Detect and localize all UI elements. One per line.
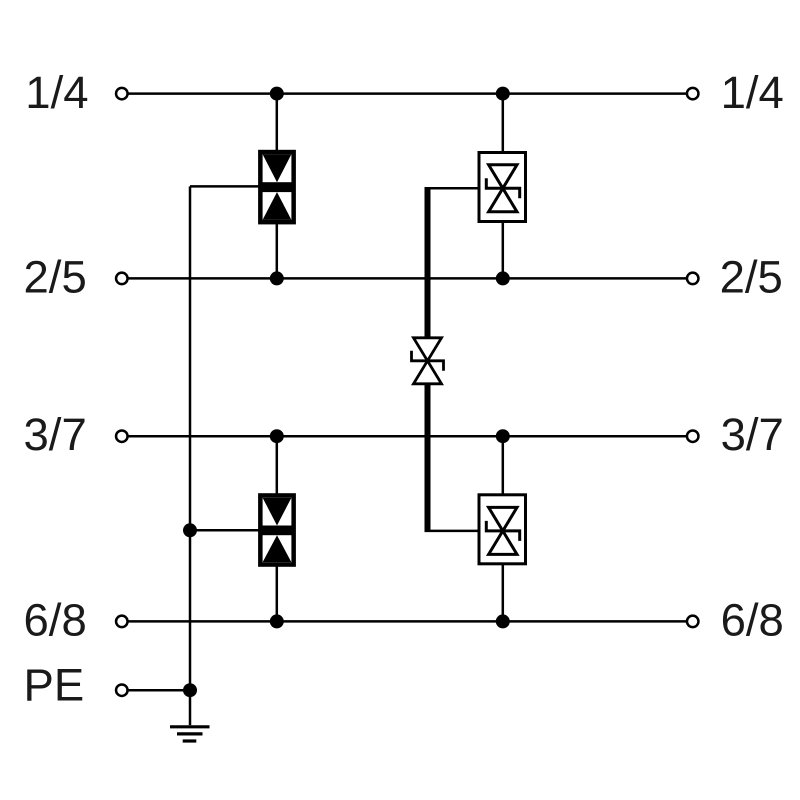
svg-text:3/7: 3/7 [721,409,784,460]
junction node: 6/8 x V2 [270,614,284,628]
svg-text:PE: PE [24,659,85,710]
boxed bidirectional suppressor F2 (bottom right) [479,495,526,564]
svg-text:1/4: 1/4 [25,67,88,118]
wire: F1 bottom to 2/5 [502,220,505,278]
wire: V2 bottom to 6/8 [276,564,279,621]
wire: 3/7 to V2 top [276,436,279,496]
ground [170,690,210,741]
terminal 3/7 left [116,430,128,442]
wire: line 6/8 [128,620,686,623]
wire: tee thick link to F1 [425,187,481,190]
junction node: 1/4 x V1 [270,87,284,101]
wire: V1 bottom to 2/5 [276,222,279,278]
wire: tee thick link to F2 [425,530,481,533]
junction node: 2/5 x V1 [270,271,284,285]
boxed bidirectional suppressor F1 (top right) [479,153,526,222]
wire: thick center link upper [425,187,431,338]
wire: line 1/4 [128,92,686,95]
terminal 3/7 right [687,430,699,442]
wire: tee to V1 mid [190,185,260,188]
wire: F2 bottom to 6/8 [502,562,505,621]
wire: PE bus vertical [189,186,192,690]
svg-text:6/8: 6/8 [24,595,87,646]
suppressor diode V2 (back-to-back, bottom left) [258,493,296,567]
junction node: 2/5 x F1 [496,271,510,285]
terminal 2/5 right [687,273,699,285]
junction node: PE terminal [183,683,197,697]
junction node: 3/7 x V2 [270,429,284,443]
wire: 3/7 to F2 top [502,436,505,497]
svg-text:2/5: 2/5 [720,251,783,302]
terminal 1/4 left [116,88,128,100]
wire: line 3/7 [128,435,686,438]
junction node: 3/7 x F2 [496,429,510,443]
terminal 2/5 left [116,273,128,285]
wire: PE lead [128,689,190,692]
terminal 6/8 left [116,616,128,628]
terminal PE left [116,684,128,696]
svg-text:6/8: 6/8 [721,595,784,646]
svg-text:3/7: 3/7 [24,409,87,460]
svg-text:2/5: 2/5 [24,251,87,302]
junction node: PE bus x V2 tee [183,523,197,537]
wire: line 2/5 [128,277,686,280]
junction node: 1/4 x F1 [496,87,510,101]
terminal 6/8 right [687,616,699,628]
terminal 1/4 right [687,88,699,100]
svg-text:1/4: 1/4 [721,67,784,118]
wire: tee to V2 mid [190,529,260,532]
wire: 1/4 to F1 top [502,94,505,155]
wire: thick center link lower [425,384,431,532]
junction node: 6/8 x F2 [496,614,510,628]
bidirectional suppressor diode V3 (center) [412,338,444,384]
suppressor diode V1 (back-to-back, top left) [258,150,296,225]
wire: 1/4 to V1 top [276,94,279,153]
